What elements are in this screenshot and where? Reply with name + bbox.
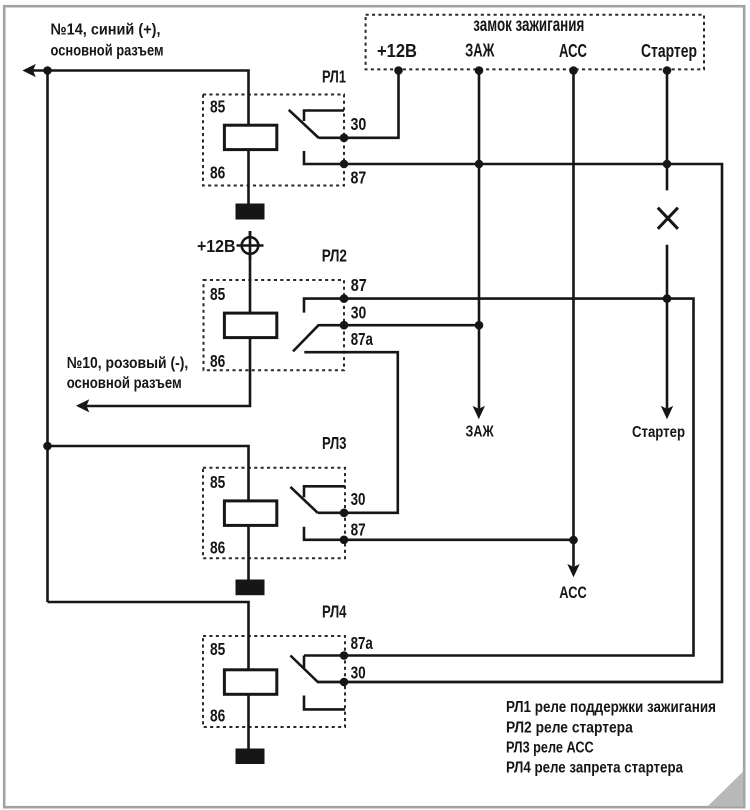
svg-text:87а: 87а [351, 329, 373, 349]
svg-text:85: 85 [210, 96, 226, 116]
svg-text:№10, розовый (-),: №10, розовый (-), [67, 355, 189, 372]
svg-text:основной разъем: основной разъем [51, 42, 164, 59]
svg-text:30: 30 [351, 489, 366, 509]
svg-text:86: 86 [210, 706, 226, 726]
svg-text:ЗАЖ: ЗАЖ [465, 40, 494, 61]
svg-text:30: 30 [351, 114, 367, 134]
svg-text:замок зажигания: замок зажигания [473, 14, 584, 36]
svg-text:+12В: +12В [377, 40, 417, 61]
svg-text:86: 86 [210, 351, 226, 371]
svg-text:РЛ2 реле стартера: РЛ2 реле стартера [506, 719, 633, 736]
svg-text:РЛ3 реле АСС: РЛ3 реле АСС [506, 739, 594, 756]
svg-text:87: 87 [351, 275, 367, 295]
svg-text:РЛ2: РЛ2 [322, 246, 347, 266]
svg-text:РЛ4 реле запрета стартера: РЛ4 реле запрета стартера [506, 759, 683, 776]
svg-text:РЛ1 реле поддержки зажигания: РЛ1 реле поддержки зажигания [506, 699, 716, 716]
svg-text:85: 85 [210, 472, 226, 492]
svg-text:Стартер: Стартер [632, 424, 685, 441]
svg-text:87а: 87а [351, 633, 373, 653]
svg-text:86: 86 [210, 538, 226, 558]
svg-text:ЗАЖ: ЗАЖ [466, 423, 495, 440]
svg-text:+12В: +12В [197, 236, 236, 256]
svg-text:87: 87 [351, 167, 367, 187]
svg-text:основной разъем: основной разъем [67, 375, 182, 392]
svg-text:РЛ4: РЛ4 [322, 601, 347, 621]
svg-text:85: 85 [210, 639, 226, 659]
svg-text:АСС: АСС [559, 40, 587, 61]
svg-text:85: 85 [210, 284, 226, 304]
svg-text:Стартер: Стартер [641, 40, 697, 61]
svg-text:АСС: АСС [559, 583, 587, 602]
svg-text:№14, синий (+),: №14, синий (+), [51, 22, 161, 39]
svg-text:РЛ1: РЛ1 [322, 67, 346, 87]
svg-text:87: 87 [351, 519, 366, 539]
svg-text:30: 30 [351, 303, 367, 323]
svg-text:30: 30 [351, 662, 366, 682]
svg-text:РЛ3: РЛ3 [322, 433, 347, 453]
svg-text:86: 86 [210, 162, 226, 182]
